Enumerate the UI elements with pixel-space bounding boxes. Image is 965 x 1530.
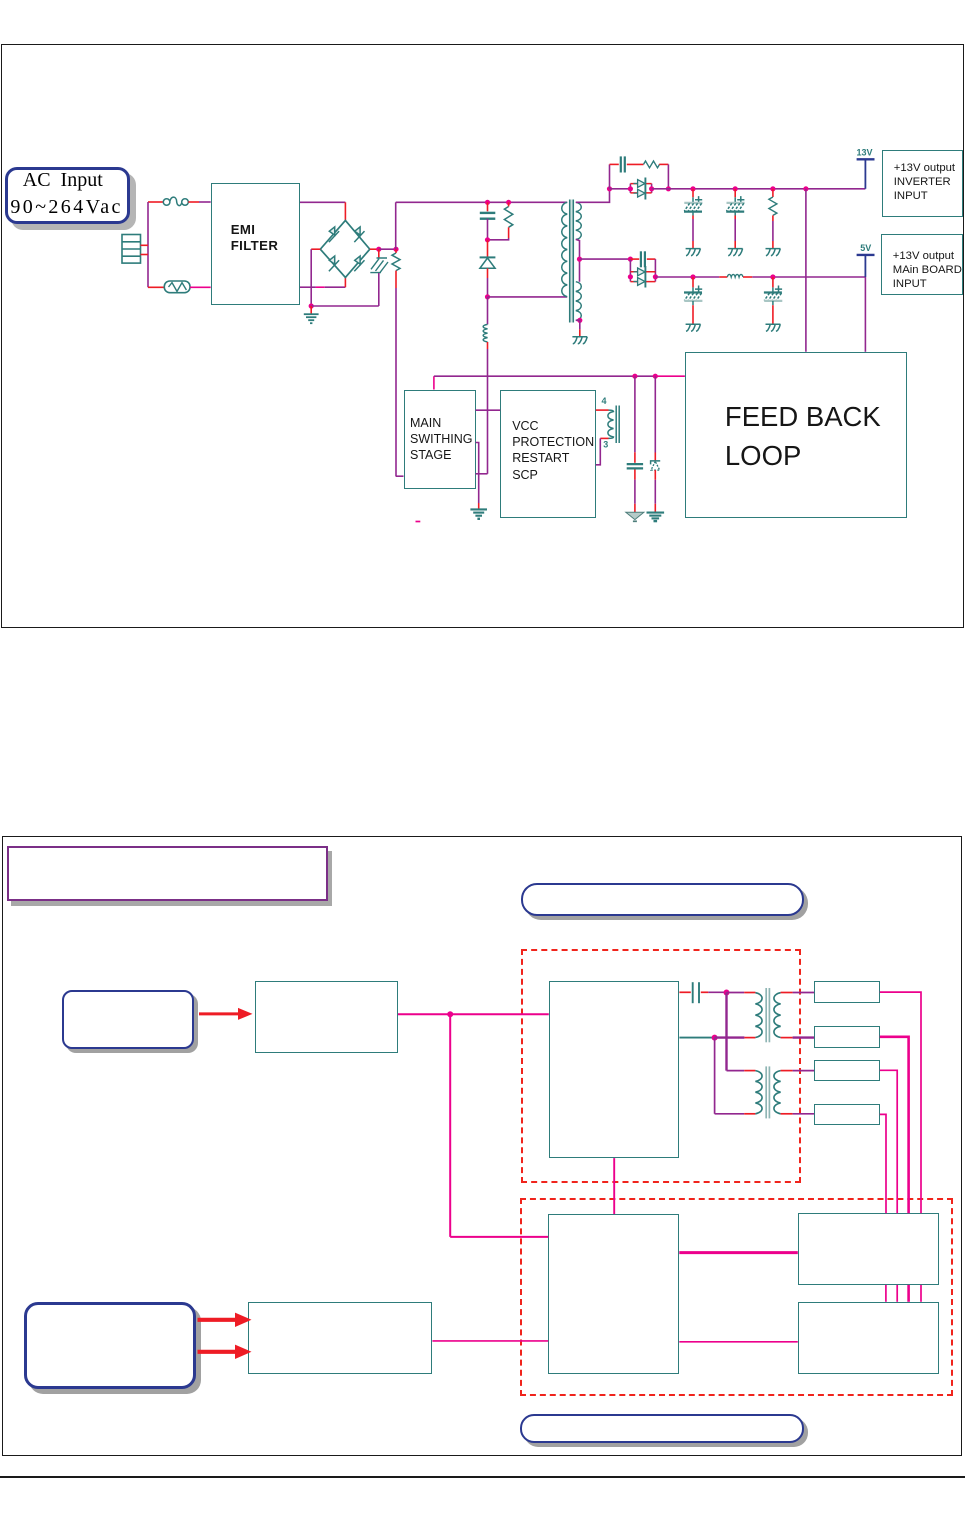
wire scan 1 [432, 1340, 548, 1342]
red dashed group 1 [521, 949, 801, 1183]
resistor R2 [508, 202, 510, 206]
ground G4 [728, 249, 743, 256]
transformer T1 secondary upper [576, 202, 581, 239]
capacitor C7 [772, 277, 774, 287]
capacitor C4 [734, 189, 736, 198]
wire to T2 top [727, 992, 745, 994]
+13V main board output box [881, 234, 962, 295]
capacitor C5 [629, 259, 631, 282]
capacitor C3 [692, 189, 694, 198]
transformer T2 [755, 993, 762, 1038]
ground G9 chassis [626, 512, 644, 519]
rounded pill bottom [520, 1414, 803, 1443]
wire L1 to MAIN [487, 349, 489, 474]
ground G10 [647, 512, 665, 514]
panel block right bottom [798, 1302, 939, 1374]
main switching stage block [404, 390, 476, 489]
diode D1 [487, 240, 489, 257]
driver block (big teal box 2) [548, 1214, 679, 1374]
ground G8 [470, 508, 487, 510]
transformer T1 primary [562, 202, 567, 296]
node plus A [376, 247, 381, 252]
node 5V left [628, 257, 633, 262]
node inverter hot [724, 990, 730, 996]
lamp rect 2 [814, 1026, 880, 1048]
wire secondary center tap [576, 239, 580, 281]
thermistor RT1 [164, 281, 190, 293]
wire inverter return [679, 1037, 714, 1039]
wire bus [610, 188, 631, 190]
wire VCC bus [433, 376, 435, 389]
lamp rect 3 [814, 1060, 880, 1082]
wire return down [714, 1038, 716, 1114]
AC input label box [5, 167, 130, 224]
wire L to fuse [148, 201, 163, 203]
transformer T3 [755, 1071, 762, 1114]
node primary bottom [485, 294, 490, 299]
wire lamp 2 [880, 1037, 909, 1214]
wire bridge plus [370, 248, 379, 250]
wire EMI top out [300, 201, 345, 203]
node C1 top [485, 200, 490, 205]
bridge rectifier BD1 [320, 220, 370, 277]
wire lamp 4 [880, 1114, 886, 1213]
dual diode D2 [629, 184, 631, 193]
wire lamp 1 [880, 992, 921, 1213]
+13V inverter output box [882, 150, 963, 217]
wire T2 out bottom [781, 1037, 793, 1039]
fuse F1 [163, 199, 170, 206]
svg-text:13V: 13V [857, 147, 873, 157]
resistor R1 [395, 249, 397, 253]
svg-text:4: 4 [602, 396, 607, 406]
node minus rail [309, 303, 314, 308]
feed back loop block [685, 352, 908, 518]
ground G1 [304, 313, 319, 315]
red dashed group 2 [520, 1198, 953, 1396]
VCC protection block [500, 390, 596, 519]
node R2 top [506, 200, 511, 205]
panel block right top [798, 1213, 939, 1285]
wire AC vertical [147, 202, 149, 287]
rounded input box 1 [62, 990, 194, 1049]
varistor ZNR1 [378, 249, 380, 257]
teal box small 2 [248, 1302, 432, 1373]
snubber C2 R3 [609, 164, 611, 188]
ground G6 [686, 324, 701, 331]
zener ZD1 [654, 376, 656, 452]
inverter block (big teal box 1) [549, 981, 680, 1158]
wire minus rail [311, 305, 379, 307]
wire 13V bus [652, 188, 866, 190]
wire to thermistor [148, 286, 164, 288]
ground G7 [766, 324, 781, 331]
bottom separator rule [0, 1476, 965, 1478]
rounded pill top [521, 883, 804, 916]
ground G5 [766, 249, 781, 256]
lamp rect 4 [814, 1104, 880, 1126]
wire fuse to EMI [188, 201, 199, 203]
wire panel link 3 [907, 1285, 910, 1302]
wire T3 out bottom [781, 1113, 793, 1115]
rounded input box 2 [24, 1302, 196, 1389]
ground G3 [686, 249, 701, 256]
mark pink tick [416, 521, 421, 523]
purple legend box (bottom section) [7, 846, 328, 901]
arrow input 1 [199, 1012, 238, 1015]
wire lamp 3 [880, 1070, 897, 1213]
wire feedback tap 2 [864, 277, 866, 352]
resistor R4 [772, 189, 774, 197]
top schematic frame [1, 44, 964, 628]
wire 5V bus [655, 276, 719, 278]
arrow input 2 [198, 1318, 236, 1322]
transformer T1 secondary lower [576, 282, 581, 321]
node snubber left [607, 186, 612, 191]
node D1 anode [485, 237, 490, 242]
5V rail [864, 255, 866, 277]
transformer T1 core [570, 200, 573, 323]
wire feedback tap 1 [805, 189, 807, 352]
wire driver to panel thick [679, 1251, 798, 1254]
node center tap [577, 257, 582, 262]
wire connector stubs [141, 244, 149, 246]
svg-text:3: 3 [603, 439, 608, 449]
dual diode D3 [630, 271, 655, 273]
lamp rect 1 [814, 981, 880, 1003]
wire panel link 4 [920, 1285, 922, 1302]
13V rail [864, 159, 866, 189]
svg-text:5V: 5V [860, 243, 871, 253]
wire secondary top out [576, 189, 610, 203]
EMI filter block [211, 183, 300, 305]
wire pin 3 [600, 437, 608, 439]
node control [447, 1011, 453, 1017]
wire panel link 2 [896, 1285, 898, 1302]
capacitor C10 [679, 991, 690, 993]
inductor L2 [727, 274, 743, 277]
inductor L1 [487, 297, 489, 325]
node secondary bottom [577, 318, 582, 323]
wire thermistor to EMI [190, 286, 211, 288]
wire control out [398, 1013, 549, 1015]
wire MAIN to ground [476, 443, 479, 504]
wire HV bus [395, 202, 397, 249]
wire EMI bottom out [300, 286, 316, 288]
capacitor C1 [487, 202, 489, 211]
node plus B [393, 247, 398, 252]
wire panel link 1 [885, 1285, 887, 1302]
node return [712, 1035, 718, 1041]
control block (teal box small 1) [255, 981, 398, 1053]
arrow input 3 [198, 1350, 236, 1354]
wire hot down [725, 993, 727, 1071]
wire inverter to driver [613, 1158, 615, 1214]
capacitor C8 [634, 376, 636, 452]
wire scan 2 [679, 1341, 798, 1343]
capacitor C6 [692, 277, 694, 287]
wire MAIN to VCC [476, 409, 501, 411]
wire bridge minus [311, 248, 320, 250]
wire T3 out top [781, 1070, 793, 1072]
wire to MAIN in [396, 475, 404, 477]
wire T2 out top [781, 992, 793, 994]
ground G2 [572, 337, 587, 344]
bottom diagram frame [2, 836, 962, 1456]
wire control down [449, 1014, 451, 1237]
wire to primary bottom [488, 296, 568, 298]
connector J1 [122, 235, 141, 264]
